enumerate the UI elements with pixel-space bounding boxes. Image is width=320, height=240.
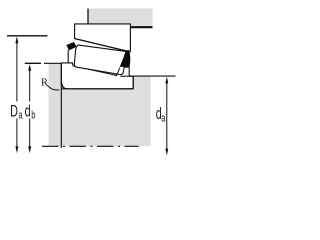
da dimension line [166,81,168,149]
shaft shoulder gray column [49,64,62,146]
fillet R curve at shoulder [62,83,67,89]
cage section right black blob [120,50,131,67]
R leader [47,85,59,90]
white box behind left labels [9,102,39,119]
svg-text:b: b [31,109,35,122]
svg-text:a: a [161,112,166,125]
cage left lower edge line [67,50,69,63]
da datum line (step top extended) [133,75,175,77]
svg-text:a: a [18,109,23,122]
cage section left black bar [66,42,76,50]
db datum line [25,62,41,64]
svg-text:D: D [10,101,18,120]
housing bore thick line [87,26,152,28]
shoulder / ring front face vertical [60,63,62,148]
shaft seat body gray [61,89,133,146]
centerline dash-dot [42,145,139,147]
Da datum line [7,35,48,37]
cup raceway line redrawn over roller top [75,39,127,52]
Da dimension line [16,41,18,147]
db dimension line [29,69,31,148]
tapered roller [74,45,126,74]
outer ring (cup) [75,24,131,52]
rib left face line over roller [117,68,120,76]
labels [10,101,166,125]
shaft right step gray [133,76,150,146]
seat line under inner ring [61,88,133,90]
inner ring (cone) [61,63,133,89]
svg-text:R: R [41,77,48,88]
step face vertical [132,76,134,89]
shoulder top edge (db level) [44,62,62,64]
rib bottom undercut line [120,75,133,77]
housing shoulder face [87,9,89,27]
housing gray block [88,9,153,28]
svg-text:d: d [25,101,31,120]
